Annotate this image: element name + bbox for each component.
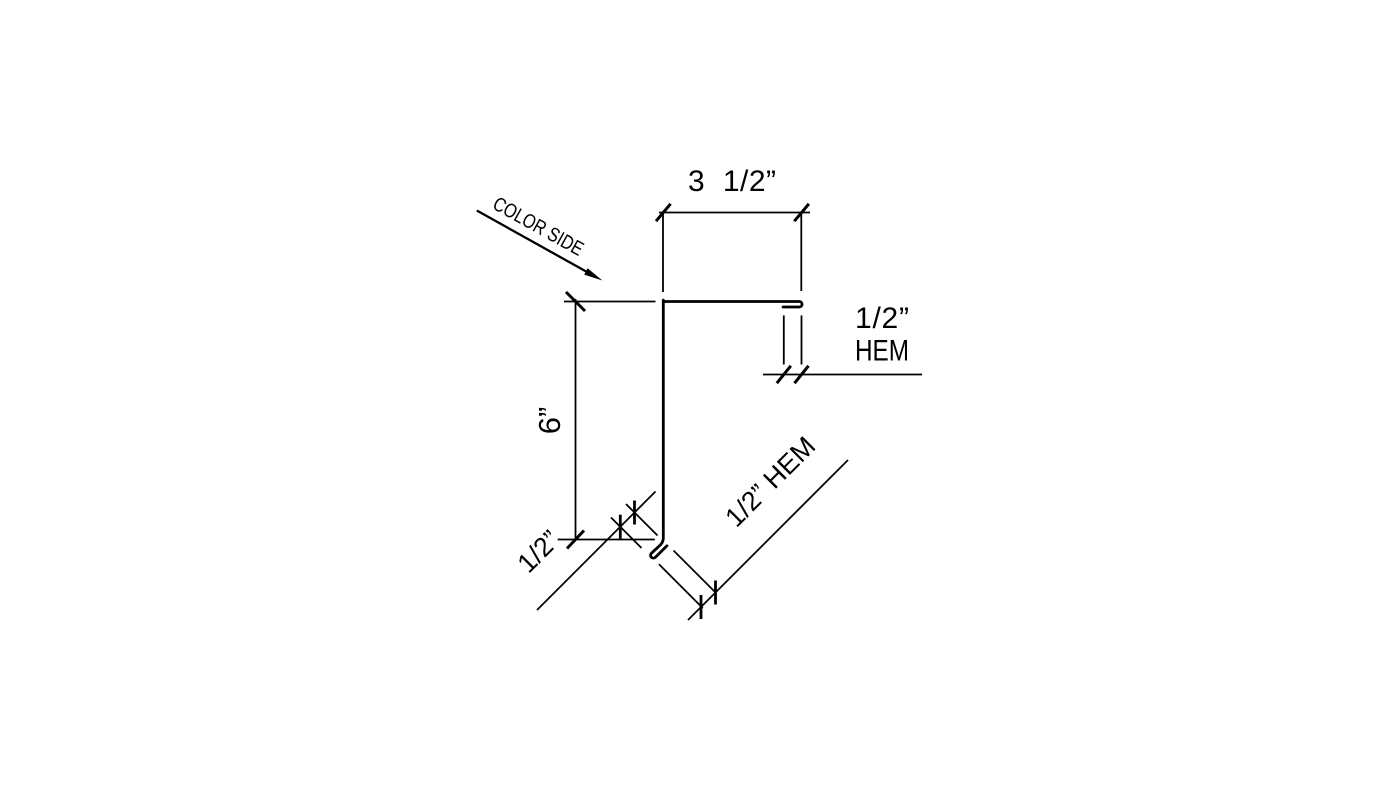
dim 3 1/2 tick right (794, 204, 809, 221)
profile vertical face with bottom kick and hem (651, 300, 667, 558)
svg-text:1/2”: 1/2” (855, 302, 909, 335)
dim 6 tick bottom (567, 531, 584, 549)
svg-text:HEM: HEM (855, 335, 909, 368)
dim 3 1/2 extension line right (800, 213, 802, 291)
color side leader line (477, 211, 596, 278)
svg-text:6”: 6” (532, 407, 567, 435)
top hem tick right (795, 366, 809, 383)
dim 3 1/2 extension line left (662, 213, 664, 292)
dim 6 dimension line (575, 299, 577, 540)
svg-text:3 1/2”: 3 1/2” (688, 165, 776, 198)
dim 6 extension line top (564, 301, 656, 303)
color side arrowhead (584, 268, 602, 280)
bottom hem extension from tip (659, 564, 703, 608)
kick dim extension from tip (611, 518, 642, 549)
top hem dim extension line left (783, 315, 785, 364)
kick dim leader line (bottom left) (537, 492, 656, 611)
top hem dim extension line right (801, 315, 803, 364)
bottom hem extension from open end (674, 551, 716, 593)
dim 3 1/2 tick left (656, 204, 671, 221)
top hem dimension line (763, 374, 922, 376)
dim 3 1/2 dimension line (659, 212, 810, 214)
bottom hem tick A (700, 595, 703, 619)
top hem tick left (777, 366, 791, 383)
bottom hem tick B (714, 581, 717, 605)
kick dim tick B (633, 501, 636, 525)
dim 6 extension line bottom (558, 539, 655, 541)
kick dim tick A (619, 515, 622, 539)
kick dim extension from bend (626, 504, 658, 536)
profile top face with 1/2 inch hem fold (663, 302, 802, 308)
dim 6 tick top (566, 292, 585, 311)
bottom hem dimension line (688, 460, 848, 620)
